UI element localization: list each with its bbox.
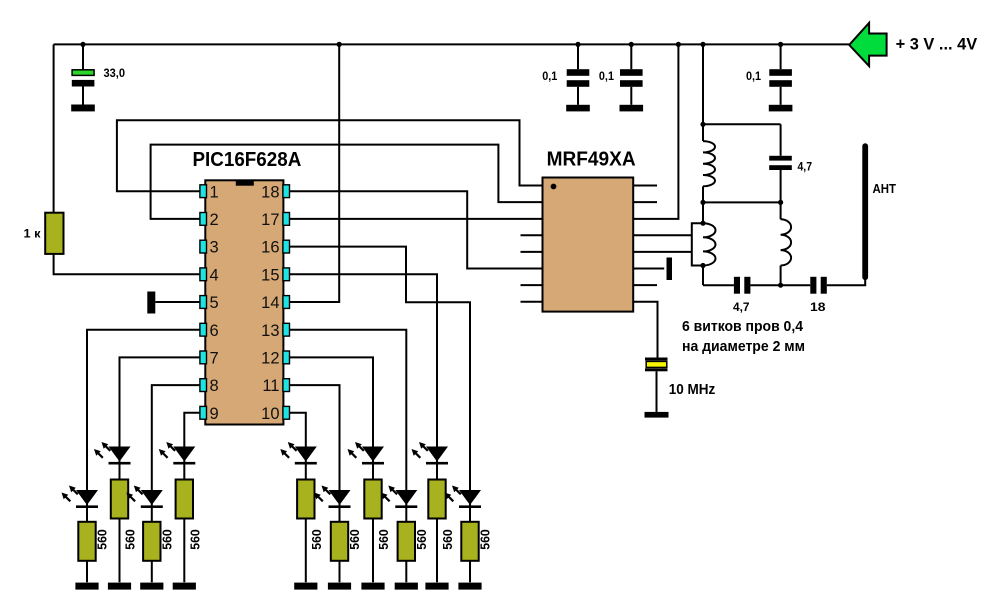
node junction rail and C2 xyxy=(575,42,580,47)
wire output line segment 3 to antenna xyxy=(827,277,865,285)
svg-text:10: 10 xyxy=(261,405,279,423)
LED D7 xyxy=(348,442,385,465)
svg-text:10 MHz: 10 MHz xyxy=(669,381,716,398)
capacitor C6 4,7 series plates xyxy=(734,277,750,294)
wire PIC pin1 to MRF pin left1 xyxy=(117,120,543,191)
crystal X1 10MHz xyxy=(645,358,668,412)
wire mid horizontal xyxy=(703,201,781,203)
PIC pin 6 xyxy=(200,322,219,340)
resistor R11 560 body xyxy=(461,522,478,561)
node mid junction right xyxy=(778,200,783,205)
wire PIC pin17 to MRF pin left3 xyxy=(290,218,543,220)
node junction rail and C1 xyxy=(80,42,85,47)
svg-text:14: 14 xyxy=(261,294,279,312)
wire L3 bottom to output line xyxy=(780,266,782,286)
wire output line segment 1 xyxy=(703,284,734,286)
node junction rail and tank drop xyxy=(700,42,705,47)
ground bar at PIC pin5 xyxy=(147,292,155,314)
resistor R7 560 body xyxy=(331,522,348,561)
wire rail to tank node xyxy=(702,44,704,141)
ground bar below branch 5 xyxy=(294,583,317,590)
ground bar below branch 10 xyxy=(458,583,481,590)
resistor R1 1k body xyxy=(45,213,63,254)
node tank top junction xyxy=(700,122,705,127)
svg-text:0,1: 0,1 xyxy=(542,69,557,83)
LED D1 xyxy=(62,486,99,509)
node L2 bottom junction xyxy=(700,263,705,268)
PIC pin 1 xyxy=(200,183,219,201)
LED D5 xyxy=(280,442,317,465)
capacitor C4 0,1 xyxy=(769,44,792,104)
resistor R3 560 body xyxy=(111,480,128,519)
svg-text:17: 17 xyxy=(261,211,279,229)
resistor R6 560 body xyxy=(297,480,314,519)
wire MRF left stub pin5 xyxy=(521,251,543,253)
svg-text:8: 8 xyxy=(210,377,219,395)
svg-text:560: 560 xyxy=(159,529,174,550)
node junction output line and L3 xyxy=(778,283,783,288)
svg-text:560: 560 xyxy=(347,529,362,550)
wire MRF right row4 to coil bracket xyxy=(633,234,692,236)
wire MRF left stub pin4 xyxy=(521,234,543,236)
PIC pin 3 xyxy=(200,239,219,257)
svg-text:3: 3 xyxy=(210,239,219,257)
IC U2 MRF49XA body xyxy=(543,178,634,312)
svg-text:5: 5 xyxy=(210,294,219,312)
wire PIC pin to LED branch 5 xyxy=(290,413,306,583)
svg-text:15: 15 xyxy=(261,266,279,284)
wire PIC pin to LED branch 8 xyxy=(290,330,407,583)
capacitor stub bar at MRF row6 xyxy=(667,258,673,281)
wire PIC pin to LED branch 1 xyxy=(87,330,200,583)
node junction rail and C3 xyxy=(629,42,634,47)
svg-text:MRF49XA: MRF49XA xyxy=(547,149,636,171)
PIC pin 8 xyxy=(200,377,219,395)
wire L2 bottom to output line xyxy=(702,266,704,286)
wire PIC pin18 to MRF pin left6 xyxy=(290,191,543,268)
svg-text:18: 18 xyxy=(810,300,826,314)
wire PIC pin2 to MRF pin left2 xyxy=(151,145,543,219)
resistor R10 560 body xyxy=(428,480,445,519)
PIC pin 13 xyxy=(261,322,289,340)
svg-text:13: 13 xyxy=(261,322,279,340)
wire tank right drop to C5 xyxy=(780,124,782,156)
wire C5 bottom to mid node xyxy=(780,170,782,202)
inductor L2 coil xyxy=(703,223,716,265)
wire MRF right stub row2 xyxy=(633,201,657,203)
PIC pin 14 xyxy=(261,294,289,312)
resistor R5 560 body xyxy=(176,480,193,519)
svg-text:16: 16 xyxy=(261,239,279,257)
wire left rail drop to R1 xyxy=(53,44,55,212)
wire PIC pin to LED branch 3 xyxy=(152,385,200,582)
svg-text:560: 560 xyxy=(414,529,429,550)
svg-text:560: 560 xyxy=(123,529,138,550)
wire ground bar to PIC pin5 xyxy=(155,301,200,303)
LED D10 xyxy=(445,486,482,509)
wire output line segment 2 xyxy=(750,284,810,286)
svg-text:0,1: 0,1 xyxy=(599,69,614,83)
svg-text:4: 4 xyxy=(210,266,219,284)
svg-text:АНТ: АНТ xyxy=(873,181,897,196)
wire power rail +3V xyxy=(54,43,850,45)
svg-text:11: 11 xyxy=(262,377,279,395)
wire PIC pin16 to LED branch 10 xyxy=(290,247,471,583)
inductor L3 coil xyxy=(781,219,792,265)
ground bar below branch 6 xyxy=(328,583,351,590)
PIC pin 15 xyxy=(261,266,289,284)
LED D2 xyxy=(94,442,131,465)
resistor R9 560 body xyxy=(398,522,415,561)
wire PIC pin to LED branch 7 xyxy=(290,357,374,582)
wire PIC pin to LED branch 9 xyxy=(290,274,438,582)
capacitor C1 33,0 electrolytic xyxy=(72,44,95,104)
svg-text:+ 3 V ... 4V: + 3 V ... 4V xyxy=(896,35,978,54)
wire PIC pin to LED branch 6 xyxy=(290,385,340,582)
wire PIC pin14 VDD to power rail xyxy=(290,44,340,302)
power arrow +3V..4V symbol xyxy=(849,23,886,66)
wire MRF right stub row1 xyxy=(633,185,657,187)
LED D8 xyxy=(381,486,418,509)
wire MRF left stub pin8 xyxy=(521,301,543,303)
PIC pin 12 xyxy=(261,350,289,368)
PIC pin 10 xyxy=(261,405,289,423)
LED D6 xyxy=(314,486,351,509)
svg-text:0,1: 0,1 xyxy=(746,69,761,83)
node L2 top junction xyxy=(700,221,705,226)
PIC pin 11 xyxy=(262,377,289,395)
ground bar below branch 8 xyxy=(395,583,418,590)
capacitor C2 0,1 xyxy=(567,44,590,104)
PIC pin 4 xyxy=(200,266,219,284)
ground bar below C3 xyxy=(620,105,644,112)
wire PIC pin to LED branch 2 xyxy=(120,357,200,582)
wire L2 bracket xyxy=(692,223,703,265)
wire MRF right row3 to power rail xyxy=(633,44,678,219)
svg-text:6: 6 xyxy=(210,322,219,340)
PIC pin 9 xyxy=(200,405,219,423)
svg-text:6 витков пров 0,4: 6 витков пров 0,4 xyxy=(682,318,804,335)
node junction rail and pin14 wire xyxy=(337,42,342,47)
svg-text:560: 560 xyxy=(478,529,493,550)
ground bar below branch 3 xyxy=(140,583,163,590)
svg-text:на диаметре 2 мм: на диаметре 2 мм xyxy=(682,338,805,355)
wire L1 bottom through mid node xyxy=(702,186,704,223)
node junction rail and MRF row3 wire xyxy=(676,42,681,47)
LED D4 xyxy=(159,442,196,465)
wire MRF right row6 to stub cap xyxy=(633,268,664,270)
wire mid node to L3 top xyxy=(780,202,782,219)
inductor L1 coil xyxy=(703,141,715,186)
IC U1 notch mark xyxy=(236,180,254,185)
LED D9 xyxy=(412,442,449,465)
wire tank top horizontal xyxy=(703,123,781,125)
PIC pin 18 xyxy=(261,183,289,201)
svg-text:560: 560 xyxy=(95,529,110,550)
svg-text:560: 560 xyxy=(187,529,202,550)
svg-text:33,0: 33,0 xyxy=(104,66,126,80)
ground bar below C4 xyxy=(769,105,793,112)
PIC pin 2 xyxy=(200,211,219,229)
ground bar below branch 4 xyxy=(173,583,196,590)
PIC pin 17 xyxy=(261,211,289,229)
wire MRF left stub pin7 xyxy=(521,284,543,286)
svg-text:560: 560 xyxy=(376,529,391,550)
LED D3 xyxy=(126,486,163,509)
capacitor C5 4,7 plates xyxy=(769,156,792,170)
PIC pin 16 xyxy=(261,239,289,257)
wire PIC pin to LED branch 4 xyxy=(184,413,200,583)
IC U1 PIC16F628A body xyxy=(205,180,283,424)
ground bar below branch 2 xyxy=(108,583,131,590)
svg-text:560: 560 xyxy=(440,529,455,550)
svg-text:9: 9 xyxy=(210,405,219,423)
resistor R4 560 body xyxy=(143,522,160,561)
svg-text:18: 18 xyxy=(261,183,279,201)
node mid junction left xyxy=(700,200,705,205)
ground bar below branch 7 xyxy=(361,583,384,590)
PIC pin 5 xyxy=(200,294,219,312)
wire MRF right stub row7 xyxy=(633,284,657,286)
svg-text:1: 1 xyxy=(210,183,219,201)
IC U2 pin1 index dot xyxy=(551,184,557,190)
svg-text:4,7: 4,7 xyxy=(733,300,750,314)
ground bar below C1 xyxy=(71,105,95,112)
antenna ANT element xyxy=(862,146,868,277)
capacitor C7 18 series plates xyxy=(810,277,827,294)
svg-text:4,7: 4,7 xyxy=(798,160,813,174)
ground bar below C2 xyxy=(566,105,590,112)
ground bar below branch 9 xyxy=(425,583,448,590)
svg-text:12: 12 xyxy=(261,350,279,368)
svg-text:PIC16F628A: PIC16F628A xyxy=(193,149,302,171)
capacitor C3 0,1 xyxy=(620,44,643,104)
svg-text:7: 7 xyxy=(210,350,219,368)
wire MRF right row8 to crystal xyxy=(633,302,657,358)
ground bar below crystal xyxy=(645,412,669,418)
node junction rail and C4 xyxy=(778,42,783,47)
svg-text:2: 2 xyxy=(210,211,219,229)
svg-text:1 к: 1 к xyxy=(24,227,42,241)
svg-text:560: 560 xyxy=(309,529,324,550)
wire MRF right row5 to coil bracket xyxy=(633,251,692,253)
resistor R2 560 body xyxy=(78,522,95,561)
wire R1 bottom to PIC pin4 xyxy=(54,254,200,274)
PIC pin 7 xyxy=(200,350,219,368)
resistor R8 560 body xyxy=(364,480,381,519)
ground bar below branch 1 xyxy=(75,583,98,590)
